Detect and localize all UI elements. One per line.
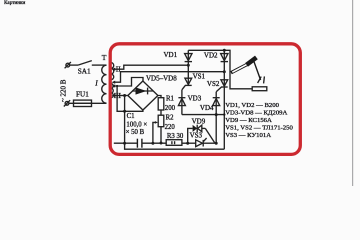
workpiece — [252, 87, 267, 91]
node A junction dot — [187, 64, 190, 67]
svg-text:Картинки: Картинки — [4, 0, 26, 6]
resistor R2 rheostat — [151, 115, 175, 145]
svg-text:VD2: VD2 — [204, 52, 218, 60]
wire bridge plus to R1 — [158, 96, 161, 98]
svg-text:VD9: VD9 — [192, 117, 206, 125]
bridge rectifier VD5-VD8 — [128, 75, 177, 110]
wire VS1 gate to VD3 — [181, 90, 183, 115]
svg-text:VS1: VS1 — [193, 73, 206, 81]
transformer T secondary winding II — [111, 63, 121, 80]
thyristor VS3 — [190, 132, 217, 147]
svg-text:VD4: VD4 — [200, 104, 214, 112]
legend component values — [225, 102, 293, 139]
wire tap III top to bridge AC top — [112, 78, 143, 88]
svg-text:VS2: VS2 — [207, 80, 220, 88]
wire tap III bottom to bridge left — [112, 94, 128, 97]
label ~220 V — [59, 79, 67, 102]
terminal X1 — [65, 62, 71, 68]
wire tap II top to node A — [112, 65, 189, 71]
wire VD1-VS1 column — [187, 50, 189, 85]
wire bridge AC bottom — [116, 85, 143, 111]
zener diode VD9 — [186, 117, 218, 144]
svg-text:R2: R2 — [166, 115, 175, 122]
wire VD2-VS2 column — [223, 50, 225, 149]
diode VD2 — [204, 52, 228, 62]
transformer T core — [102, 53, 111, 122]
terminal X2 — [64, 100, 70, 106]
svg-text:VS3 — КУ101А: VS3 — КУ101А — [225, 132, 271, 139]
svg-text:T: T — [102, 53, 107, 62]
wire lower return bus — [125, 143, 225, 149]
wire bottom bus — [114, 142, 196, 145]
transformer T secondary winding III — [111, 84, 122, 100]
svg-text:200: 200 — [165, 105, 176, 112]
wire — [70, 64, 78, 66]
svg-text:VD5–VD8: VD5–VD8 — [146, 75, 177, 83]
svg-text:FU1: FU1 — [76, 91, 89, 99]
node B junction dot — [223, 70, 226, 73]
svg-text:I: I — [94, 79, 98, 88]
arc sparks — [258, 76, 265, 83]
svg-text:C1: C1 — [127, 113, 135, 120]
resistor R3 — [166, 133, 184, 145]
wire gate bus — [182, 113, 226, 116]
svg-text:220: 220 — [165, 124, 176, 131]
node VD2 top junction dot — [223, 49, 226, 52]
svg-text:SA1: SA1 — [78, 68, 91, 76]
svg-text:VS1, VS2 — ТЛ171-250: VS1, VS2 — ТЛ171-250 — [225, 125, 293, 132]
resistor R1 — [158, 96, 175, 113]
svg-text:VD1, VD2 — В200: VD1, VD2 — В200 — [225, 102, 279, 109]
diode VD1 — [164, 51, 193, 62]
wire top output — [188, 50, 252, 89]
wire R1 to R2 — [160, 110, 162, 115]
svg-text:R3 30: R3 30 — [167, 133, 184, 140]
wire tap II bottom to node B — [112, 72, 225, 84]
svg-text:R1: R1 — [166, 96, 174, 103]
transformer T primary winding I — [94, 65, 106, 103]
switch SA1 — [78, 61, 92, 76]
diode VD3 — [178, 94, 201, 105]
wire — [92, 64, 107, 66]
svg-text:~ 220 В: ~ 220 В — [59, 79, 67, 102]
svg-text:VD9 — КС156А: VD9 — КС156А — [225, 117, 272, 124]
wire VS2 gate to VD4 — [215, 92, 217, 143]
svg-text:VS3: VS3 — [190, 132, 203, 140]
thyristor VS1 — [182, 73, 206, 90]
wire bridge minus down to bottom bus — [123, 96, 126, 144]
capacitor C1 — [126, 113, 148, 148]
svg-text:VD3-VD8 — КД209А: VD3-VD8 — КД209А — [225, 110, 287, 117]
wire R2 to bottom bus — [160, 127, 163, 145]
diode VD4 — [200, 98, 220, 112]
svg-text:100,0 ×: 100,0 × — [126, 122, 147, 129]
fuse FU1 — [69, 91, 107, 107]
thyristor VS2 — [207, 80, 228, 92]
svg-text:VD1: VD1 — [164, 51, 178, 59]
svg-text:× 50 В: × 50 В — [126, 129, 145, 136]
svg-text:VD3: VD3 — [188, 94, 202, 102]
welding electrode and holder — [231, 57, 261, 80]
